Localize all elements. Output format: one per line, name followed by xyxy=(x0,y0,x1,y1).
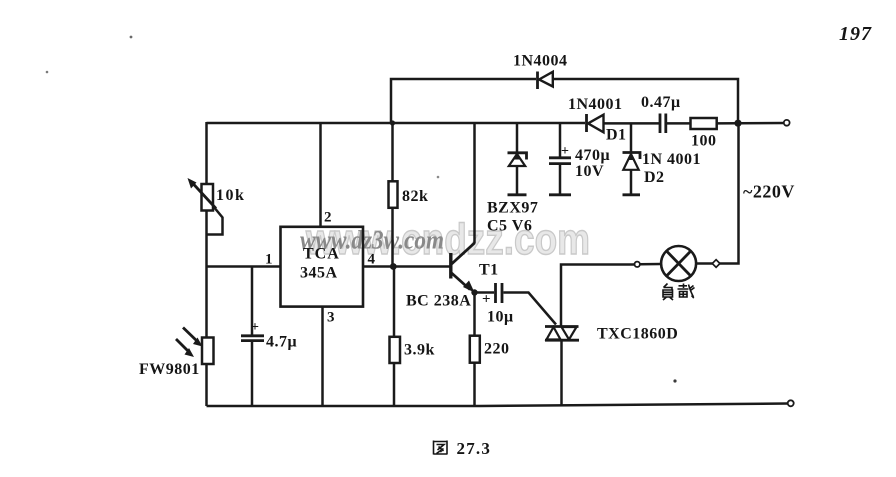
svg-text:27.3: 27.3 xyxy=(457,439,492,458)
label load (Chinese) xyxy=(663,284,695,301)
svg-text:2: 2 xyxy=(324,210,332,226)
svg-text:C5 V6: C5 V6 xyxy=(487,218,532,235)
svg-text:100: 100 xyxy=(691,133,717,150)
junction top right xyxy=(734,120,741,127)
wire 82k riser xyxy=(391,123,394,267)
svg-text:3.9k: 3.9k xyxy=(404,342,435,359)
scan speck 4 xyxy=(437,176,440,179)
resistor 82k xyxy=(389,181,429,208)
svg-text:0.47μ: 0.47μ xyxy=(641,94,681,111)
svg-text:82k: 82k xyxy=(402,188,428,205)
capacitor 10u xyxy=(482,283,514,326)
wire zener branch xyxy=(516,123,519,152)
resistor 100 xyxy=(691,118,717,150)
transistor Q1 BC238A xyxy=(406,243,499,310)
wire bottom rail xyxy=(207,404,789,407)
wire D2 lower xyxy=(630,170,633,194)
svg-text:TXC1860D: TXC1860D xyxy=(597,326,678,343)
wire 4.7u branch xyxy=(251,267,254,336)
terminal lamp left xyxy=(635,262,640,267)
svg-text:+: + xyxy=(561,144,569,159)
wire lamp right short xyxy=(696,262,713,265)
wire zener lower xyxy=(516,166,519,194)
scan speck 2 xyxy=(46,71,49,74)
wire triac top riser xyxy=(561,265,635,327)
svg-text:TCA: TCA xyxy=(303,246,340,263)
svg-text:1: 1 xyxy=(265,252,273,268)
capacitor 0.47u xyxy=(641,94,681,133)
svg-text:10μ: 10μ xyxy=(487,309,514,326)
svg-text:BC 238A: BC 238A xyxy=(406,293,471,310)
svg-text:220: 220 xyxy=(484,341,510,358)
scan speck 3 xyxy=(673,379,676,382)
wire 470u branch xyxy=(559,123,562,157)
svg-text:3: 3 xyxy=(327,310,335,326)
resistor 220 xyxy=(470,336,510,363)
svg-text:10k: 10k xyxy=(216,187,245,204)
svg-text:1N4001: 1N4001 xyxy=(568,96,623,113)
zener BZX97 xyxy=(487,153,538,235)
svg-text:~220V: ~220V xyxy=(743,182,795,202)
wire D1 to 0.47u xyxy=(604,122,659,125)
lamp load xyxy=(661,246,696,281)
wire pin3 vertical xyxy=(321,306,324,406)
svg-text:10V: 10V xyxy=(575,163,604,180)
diode 1N4004 xyxy=(513,53,568,90)
svg-text:345A: 345A xyxy=(300,265,338,282)
wire emitter to 10u cap xyxy=(475,291,495,294)
wire D2 branch xyxy=(630,123,633,152)
svg-text:+: + xyxy=(251,320,259,335)
caption figure 27.3 xyxy=(434,439,492,458)
terminal lamp right xyxy=(712,260,720,268)
svg-text:4.7μ: 4.7μ xyxy=(266,334,297,351)
junction pin4 node xyxy=(390,263,397,270)
resistor 3.9k xyxy=(390,337,435,363)
capacitor 4.7u xyxy=(241,320,297,351)
svg-text:1N4004: 1N4004 xyxy=(513,53,568,70)
svg-text:197: 197 xyxy=(839,23,872,45)
wire pin4 horizontal xyxy=(363,265,450,268)
svg-text:1N 4001: 1N 4001 xyxy=(642,151,701,168)
terminal top right xyxy=(784,120,790,126)
svg-text:+: + xyxy=(482,292,491,308)
wire lamp right to top junction xyxy=(719,123,739,264)
wire main rail y123 left section xyxy=(207,122,586,125)
svg-text:FW9801: FW9801 xyxy=(139,361,200,378)
svg-text:470μ: 470μ xyxy=(575,147,610,164)
op-amp U1 TCA345A box xyxy=(265,210,376,326)
diode D1 1N4001 xyxy=(568,96,627,144)
wire 100 to terminal xyxy=(717,122,784,125)
wire lamp left short xyxy=(640,263,661,266)
wire 10u cap to triac gate diagonal xyxy=(504,293,557,325)
svg-text:D1: D1 xyxy=(606,127,627,144)
wire left vertical rail xyxy=(205,122,208,406)
svg-text:D2: D2 xyxy=(644,169,665,186)
potentiometer 10k xyxy=(188,178,246,235)
wire pin2 vertical xyxy=(319,123,322,227)
wire collector riser xyxy=(473,123,476,244)
wire triac bottom riser xyxy=(560,341,563,405)
junction emitter node xyxy=(471,289,477,295)
junction 82k top xyxy=(390,120,395,125)
svg-text:T1: T1 xyxy=(479,262,499,279)
wire 3.9k branch xyxy=(393,267,396,407)
wire 220 branch xyxy=(473,293,476,407)
capacitor 470u 10V xyxy=(549,144,610,195)
wire top rail xyxy=(391,79,536,123)
svg-text:BZX97: BZX97 xyxy=(487,200,538,217)
wire 470u lower xyxy=(559,165,562,195)
triac TXC1860D xyxy=(545,326,678,343)
terminal bottom right xyxy=(788,400,794,406)
wire 4.7u branch lower xyxy=(251,341,254,406)
photoresistor FW9801 xyxy=(139,328,214,379)
scan speck 1 xyxy=(130,36,133,39)
wire top rail right of 1N4004 xyxy=(554,79,739,123)
diode D2 1N4001 xyxy=(623,151,702,195)
wire 0.47u to 100 xyxy=(667,122,691,125)
wire pin1 horizontal xyxy=(207,265,281,268)
svg-text:4: 4 xyxy=(368,252,376,268)
